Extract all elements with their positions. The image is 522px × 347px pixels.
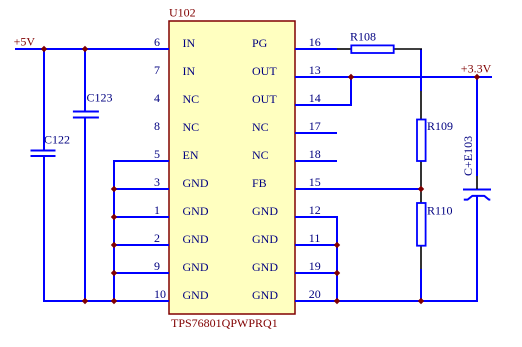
- svg-text:C122: C122: [44, 133, 70, 147]
- svg-text:FB: FB: [252, 176, 267, 190]
- svg-text:PG: PG: [252, 36, 268, 50]
- svg-text:IN: IN: [183, 64, 196, 78]
- svg-text:15: 15: [309, 175, 321, 189]
- svg-text:GND: GND: [183, 232, 209, 246]
- svg-text:+5V: +5V: [14, 35, 36, 49]
- svg-text:16: 16: [309, 35, 321, 49]
- svg-text:10: 10: [154, 287, 166, 301]
- svg-text:C+E103: C+E103: [461, 136, 475, 176]
- svg-text:6: 6: [154, 35, 160, 49]
- svg-text:3: 3: [154, 175, 160, 189]
- svg-text:11: 11: [309, 231, 321, 245]
- svg-text:13: 13: [309, 63, 321, 77]
- svg-text:8: 8: [154, 119, 160, 133]
- svg-text:GND: GND: [252, 288, 278, 302]
- svg-text:GND: GND: [183, 176, 209, 190]
- svg-text:NC: NC: [183, 120, 200, 134]
- svg-text:R108: R108: [350, 30, 376, 44]
- svg-text:5: 5: [154, 147, 160, 161]
- svg-text:18: 18: [309, 147, 321, 161]
- svg-text:R109: R109: [427, 119, 453, 133]
- svg-text:NC: NC: [252, 148, 269, 162]
- svg-text:GND: GND: [183, 260, 209, 274]
- svg-text:OUT: OUT: [252, 64, 277, 78]
- svg-text:2: 2: [154, 231, 160, 245]
- svg-text:GND: GND: [252, 204, 278, 218]
- svg-text:NC: NC: [183, 92, 200, 106]
- svg-text:14: 14: [309, 91, 321, 105]
- svg-text:20: 20: [309, 287, 321, 301]
- svg-text:1: 1: [154, 203, 160, 217]
- svg-text:19: 19: [309, 259, 321, 273]
- svg-text:17: 17: [309, 119, 321, 133]
- svg-text:TPS76801QPWPRQ1: TPS76801QPWPRQ1: [171, 316, 278, 330]
- svg-text:IN: IN: [183, 36, 196, 50]
- svg-text:C123: C123: [87, 91, 113, 105]
- svg-text:NC: NC: [252, 120, 269, 134]
- svg-text:R110: R110: [427, 204, 453, 218]
- svg-text:EN: EN: [183, 148, 199, 162]
- svg-text:U102: U102: [169, 6, 196, 20]
- svg-text:+3.3V: +3.3V: [461, 62, 492, 76]
- svg-text:4: 4: [154, 91, 160, 105]
- svg-text:GND: GND: [183, 204, 209, 218]
- svg-text:12: 12: [309, 203, 321, 217]
- svg-text:GND: GND: [252, 232, 278, 246]
- svg-text:GND: GND: [183, 288, 209, 302]
- svg-text:GND: GND: [252, 260, 278, 274]
- svg-text:OUT: OUT: [252, 92, 277, 106]
- svg-text:7: 7: [154, 63, 160, 77]
- svg-text:9: 9: [154, 259, 160, 273]
